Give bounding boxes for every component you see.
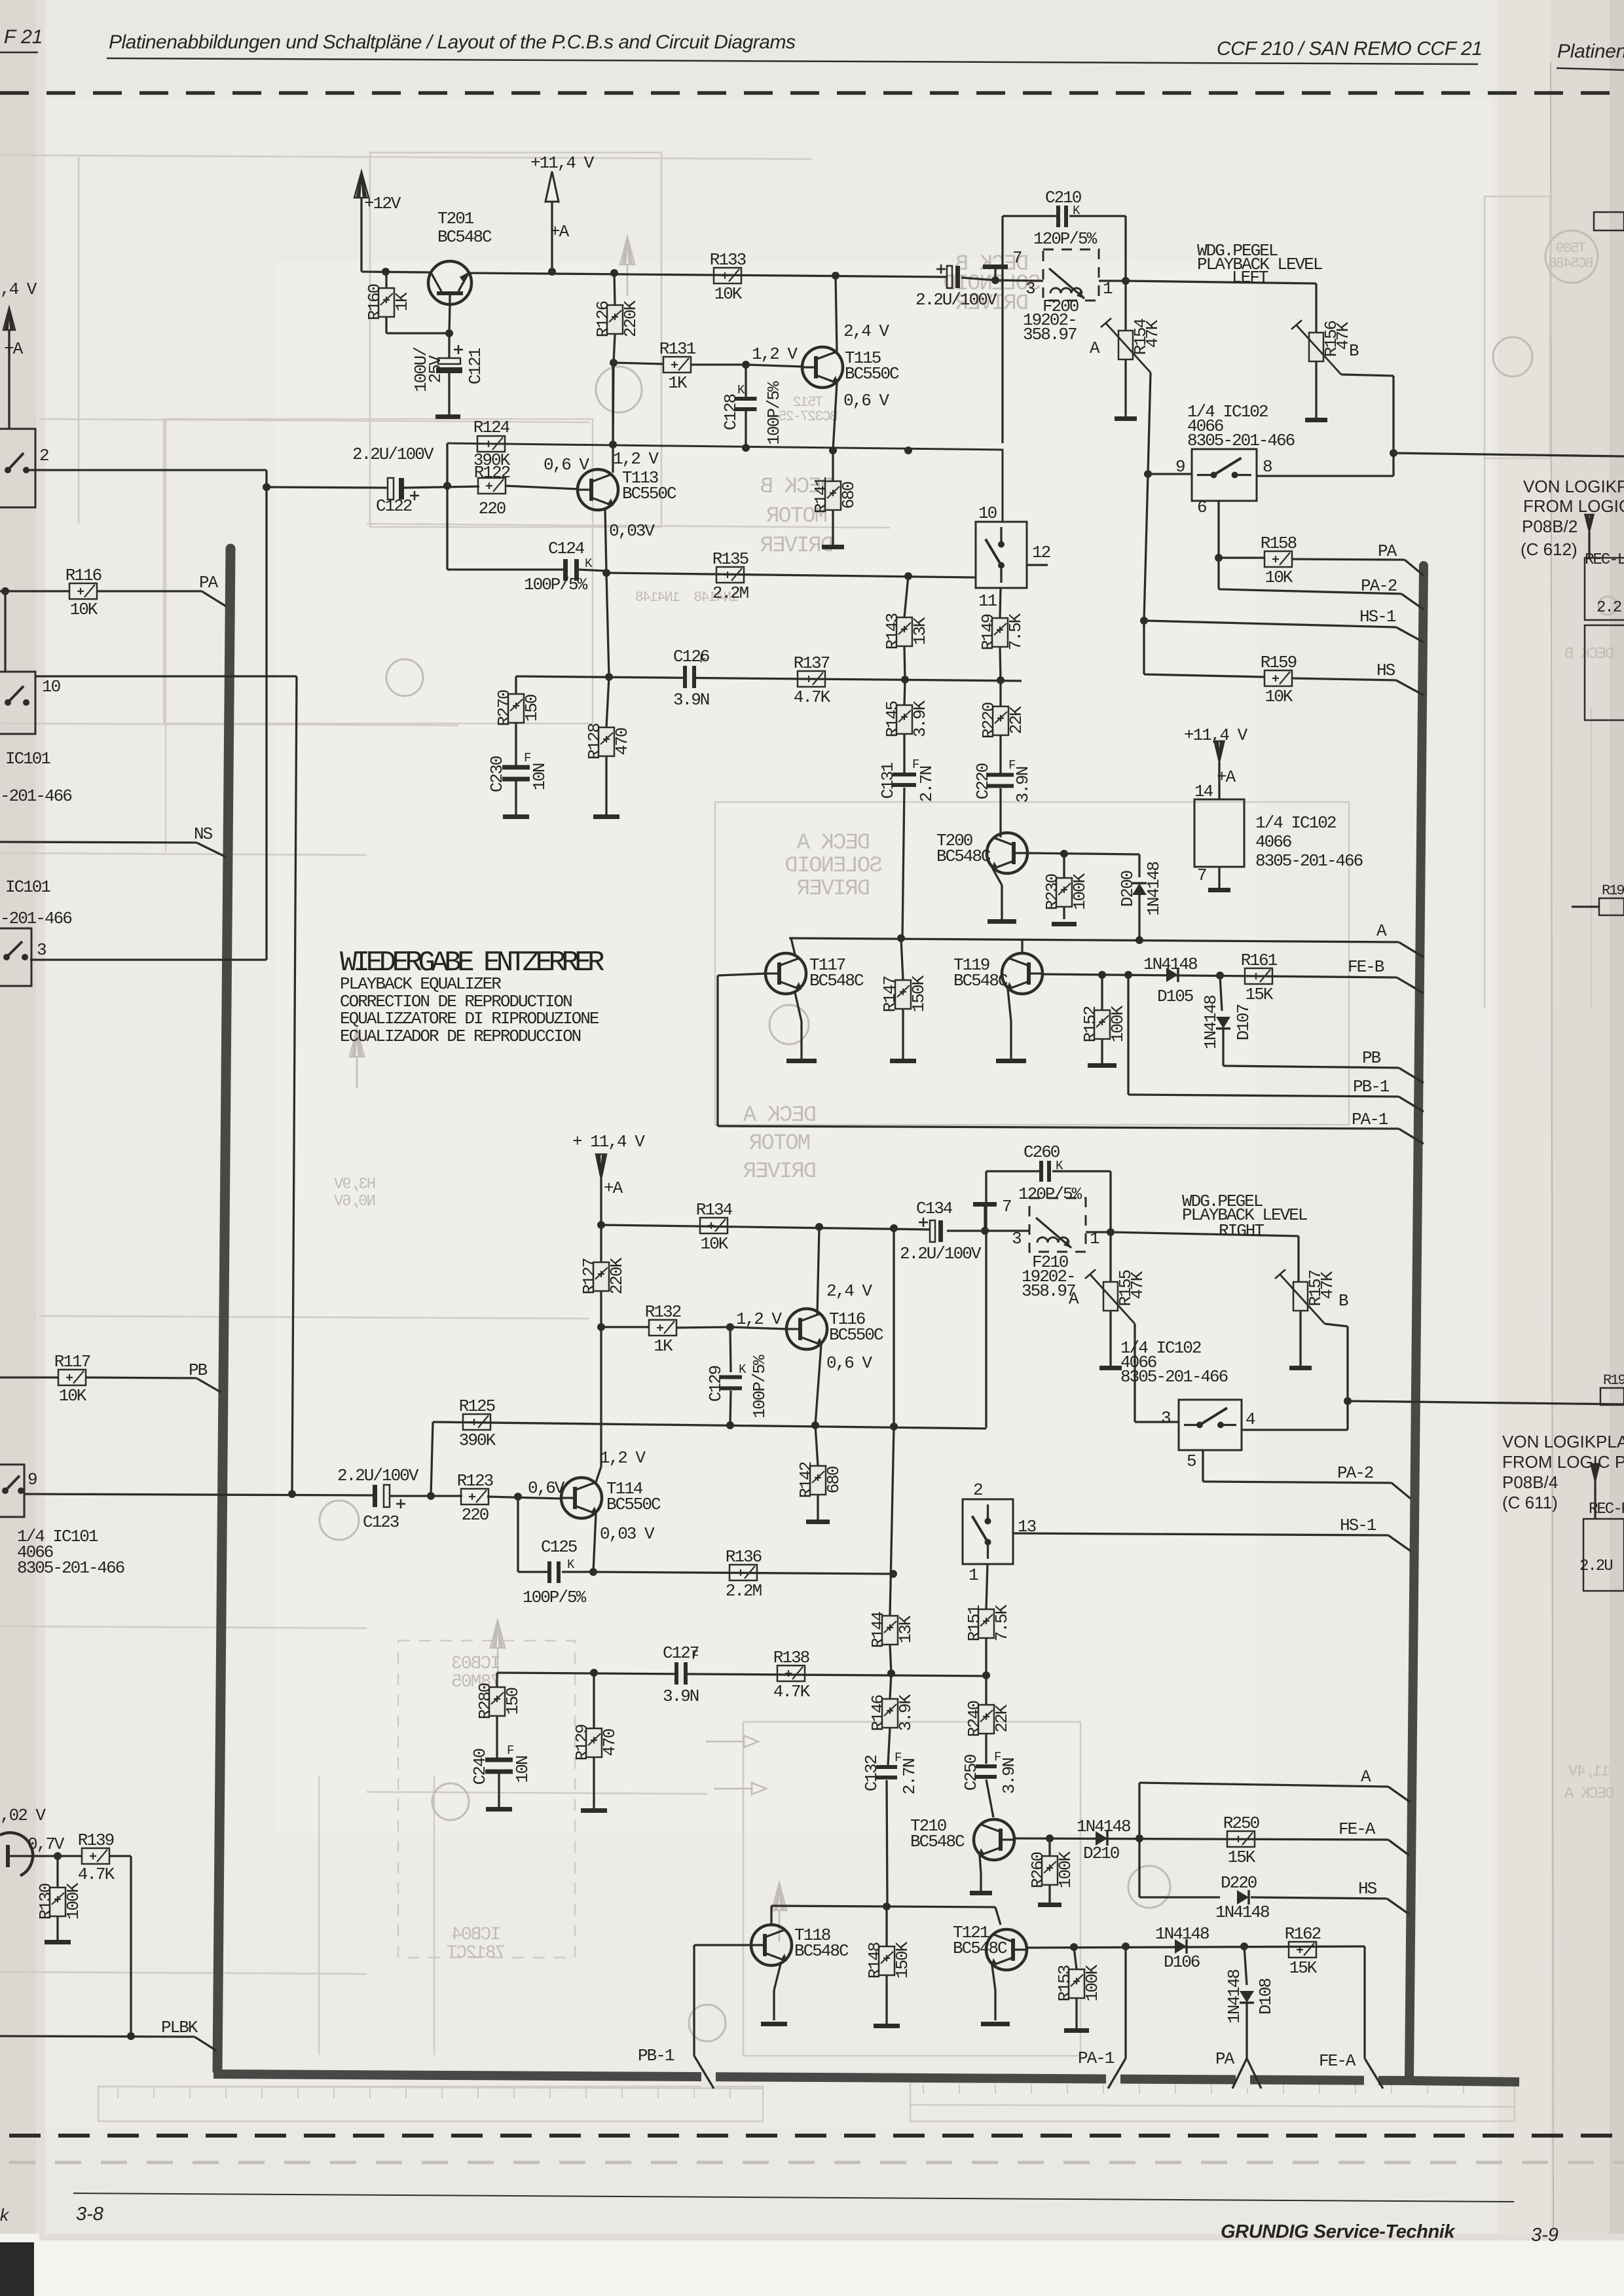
svg-text:10K: 10K: [714, 284, 743, 304]
svg-text:A: A: [1090, 338, 1100, 358]
svg-text:1N4148: 1N4148: [1155, 1924, 1209, 1944]
diode D105: [1166, 968, 1178, 982]
svg-text:R137: R137: [794, 653, 830, 673]
shield pin 7 of F200: [994, 269, 996, 280]
svg-text:ICB04: ICB04: [452, 1925, 501, 1945]
svg-text:3-9: 3-9: [1531, 2225, 1559, 2246]
ground: [822, 545, 844, 549]
resistor R141: [832, 450, 834, 481]
bottom scanner strip: [0, 2234, 1624, 2296]
bus line right vertical: [1409, 566, 1424, 2077]
svg-text:D105: D105: [1157, 987, 1193, 1006]
svg-text:C127: C127: [663, 1643, 699, 1663]
svg-text:R139: R139: [78, 1831, 114, 1850]
resistor R131: [663, 357, 691, 373]
svg-text:100P/5%: 100P/5%: [764, 381, 784, 445]
wire R157 wiper to node B lower: [1325, 1324, 1348, 1326]
svg-text:7.5K: 7.5K: [992, 1604, 1012, 1641]
svg-text:0,6 V: 0,6 V: [826, 1353, 872, 1373]
ground: [1064, 2028, 1089, 2033]
bus line bottom right extension: [1409, 2081, 1519, 2082]
svg-text:ICB03: ICB03: [452, 1654, 501, 1674]
diode D210: [1096, 1831, 1107, 1846]
capacitor C126: [683, 666, 687, 688]
wire to R157: [1111, 1232, 1299, 1236]
svg-text:47K: 47K: [1143, 319, 1162, 348]
svg-text:PLAYBACK EQUALIZER: PLAYBACK EQUALIZER: [340, 974, 501, 994]
svg-text:,02 V: ,02 V: [0, 1806, 46, 1825]
ground: [761, 2022, 787, 2026]
svg-text:R162: R162: [1285, 1924, 1321, 1944]
resistor R220: [999, 680, 1001, 706]
svg-text:4.7K: 4.7K: [794, 687, 831, 707]
ground: [1052, 922, 1077, 926]
node PA lower: [1232, 2058, 1247, 2088]
svg-text:C124: C124: [548, 539, 585, 558]
svg-text:DECK A: DECK A: [1564, 1785, 1614, 1803]
wire wiper node to HS nets: [1144, 474, 1148, 621]
svg-text:358.97: 358.97: [1023, 325, 1077, 344]
svg-text:47K: 47K: [1128, 1271, 1147, 1299]
ghost reverse-side wiring: [0, 155, 812, 159]
ground: [1038, 1903, 1061, 1907]
svg-text:1K: 1K: [654, 1336, 673, 1356]
wire T119 collector: [1021, 940, 1023, 953]
capacitor C124: [446, 486, 448, 570]
svg-text:R135: R135: [712, 549, 748, 569]
svg-text:+A: +A: [550, 222, 570, 242]
svg-text:150K: 150K: [909, 975, 929, 1012]
wire T117 emitter: [795, 993, 802, 1021]
svg-text:680: 680: [839, 482, 858, 509]
svg-text:9: 9: [28, 1470, 37, 1489]
svg-text:12: 12: [1032, 543, 1050, 562]
resistor R116: [69, 583, 97, 599]
svg-text:C260: C260: [1024, 1142, 1060, 1162]
svg-text:R158: R158: [1261, 534, 1297, 553]
svg-text:120P/5%: 120P/5%: [1033, 229, 1098, 249]
left edge switch IC101 pin 9: [0, 1465, 24, 1517]
svg-text:PB: PB: [189, 1360, 208, 1380]
wire emitter node to R128: [606, 574, 609, 677]
svg-text:VON LOGIKPL: VON LOGIKPL: [1523, 477, 1624, 496]
svg-text:R260: R260: [1028, 1852, 1048, 1888]
left edge power arrow: [3, 308, 15, 330]
node PB-1: [1127, 975, 1129, 1095]
resistor R117: [58, 1370, 86, 1385]
svg-text:R144: R144: [868, 1611, 888, 1648]
svg-text:REC-R: REC-R: [1589, 1501, 1624, 1518]
svg-text:3: 3: [37, 940, 46, 960]
svg-text:220: 220: [479, 499, 506, 519]
left edge switch IC101 pin 10: [0, 672, 35, 734]
svg-text:C126: C126: [673, 647, 709, 666]
ground: [486, 1807, 512, 1812]
svg-text:NS: NS: [194, 824, 213, 844]
transistor T117: [766, 953, 806, 994]
wire T116 collector: [817, 1228, 819, 1315]
svg-text:10: 10: [42, 677, 60, 697]
svg-text:7: 7: [1002, 1197, 1011, 1216]
svg-text:ECUALIZADOR DE REPRODUCCION: ECUALIZADOR DE REPRODUCCION: [340, 1027, 581, 1046]
wire T117 collector: [791, 938, 795, 955]
svg-text:1N4148: 1N4148: [1143, 955, 1197, 974]
resistor R129: [593, 1673, 595, 1728]
resistor R145: [904, 680, 905, 705]
svg-text:K: K: [585, 556, 593, 571]
REC-R block outline: [1583, 1519, 1624, 1591]
wire T118 collector line: [770, 1906, 772, 1923]
svg-text:680: 680: [824, 1467, 843, 1493]
transistor T210: [974, 1819, 1014, 1860]
svg-text:358.97: 358.97: [1022, 1281, 1075, 1301]
svg-text:R151: R151: [965, 1605, 984, 1641]
svg-text:470: 470: [600, 1729, 619, 1756]
svg-text:Platinena: Platinena: [1557, 41, 1624, 62]
svg-text:DRIVER: DRIVER: [797, 877, 870, 902]
capacitor C240: [485, 1758, 513, 1762]
wire R135 line: [606, 573, 976, 577]
svg-text:PA-1: PA-1: [1078, 2049, 1115, 2068]
svg-text:HS: HS: [1376, 661, 1395, 680]
svg-text:R133: R133: [710, 250, 746, 270]
svg-text:R145: R145: [883, 701, 902, 737]
svg-text:1N4148: 1N4148: [1144, 862, 1164, 916]
IC102 switch block pin 14-7: [1194, 799, 1244, 867]
svg-text:C123: C123: [363, 1512, 399, 1532]
wire R136 line: [593, 1572, 893, 1574]
node PA-1 line: [718, 1126, 1399, 1129]
svg-text:7.5K: 7.5K: [1006, 613, 1025, 650]
wire T210 base line: [1014, 1838, 1388, 1840]
svg-text:(C 612): (C 612): [1521, 539, 1578, 559]
svg-text:C250: C250: [961, 1755, 981, 1791]
svg-text:R230: R230: [1043, 874, 1062, 910]
svg-text:1,2 V: 1,2 V: [613, 449, 659, 469]
ground: [996, 1059, 1026, 1063]
ground: [1305, 418, 1327, 422]
svg-text:R125: R125: [459, 1396, 495, 1416]
svg-text:100K: 100K: [1082, 1964, 1102, 2001]
svg-text:BC548C: BC548C: [437, 227, 492, 247]
left edge wire: [8, 367, 10, 429]
node PA left: [0, 590, 69, 592]
left edge transistor: [0, 1832, 33, 1876]
resistor R142: [815, 1425, 818, 1466]
svg-text:2.2U/100V: 2.2U/100V: [900, 1244, 982, 1264]
wire R144 chain vertical: [893, 1228, 895, 1427]
svg-text:FROM LOGIC: FROM LOGIC: [1523, 496, 1624, 516]
svg-text:R128: R128: [585, 723, 604, 759]
transistor T118: [751, 1925, 792, 1965]
node A lower: [1139, 1783, 1388, 1787]
svg-text:C210: C210: [1045, 188, 1081, 208]
svg-text:390K: 390K: [459, 1430, 496, 1450]
resistor R125: [463, 1414, 490, 1430]
wire T114 emitter: [593, 1514, 596, 1572]
svg-text:220K: 220K: [607, 1257, 627, 1294]
resistor R160: [385, 272, 387, 288]
svg-text:PA: PA: [1378, 541, 1397, 561]
wire T210 emitter: [980, 1855, 981, 1874]
svg-text:P08B/2: P08B/2: [1522, 517, 1578, 536]
svg-text:2,4 V: 2,4 V: [843, 321, 889, 341]
svg-text:4.7K: 4.7K: [773, 1682, 811, 1702]
svg-text:C131: C131: [878, 762, 898, 799]
svg-text:FE-B: FE-B: [1348, 957, 1384, 977]
bus line left vertical: [217, 549, 231, 2070]
svg-text:D220: D220: [1221, 1873, 1257, 1893]
svg-text:BC548C: BC548C: [809, 971, 864, 991]
svg-text:R159: R159: [1261, 653, 1297, 672]
ground: [786, 1059, 817, 1063]
resistor R139: [82, 1848, 109, 1864]
diode D200: [1132, 883, 1147, 895]
svg-text:F: F: [524, 751, 531, 765]
svg-text:N0,6V: N0,6V: [333, 1193, 376, 1211]
svg-text:13K: 13K: [896, 1615, 915, 1643]
svg-text:220: 220: [462, 1505, 489, 1525]
resistor R126: [614, 273, 615, 305]
svg-text:T509: T509: [1557, 240, 1587, 257]
svg-text:R116: R116: [65, 566, 101, 585]
capacitor C129: [730, 1327, 731, 1372]
ground: [503, 814, 529, 819]
svg-text:3: 3: [1161, 1408, 1170, 1428]
wire top supply rail: [361, 272, 430, 272]
right edge resistor fragment upper: [1594, 212, 1624, 230]
REC-L block outline: [1585, 558, 1624, 620]
svg-text:R117: R117: [54, 1352, 90, 1372]
svg-text:100K: 100K: [1070, 873, 1090, 910]
ground: [1208, 888, 1230, 892]
node A line: [789, 938, 1399, 942]
resistor R240: [985, 1675, 987, 1705]
resistor R139: [58, 1855, 82, 1857]
resistor R159: [1144, 674, 1264, 677]
tape head F200: [1043, 249, 1099, 301]
resistor R136: [729, 1565, 757, 1580]
svg-text:0,6 V: 0,6 V: [544, 455, 589, 475]
diode D106: [1175, 1939, 1187, 1954]
svg-text:(C 611): (C 611): [1502, 1493, 1558, 1512]
resistor R280: [496, 1673, 498, 1687]
svg-text:10N: 10N: [530, 763, 549, 790]
wire switch pin 8: [1257, 475, 1393, 477]
wire pin 10 route: [35, 675, 297, 677]
ground: [970, 1891, 992, 1895]
svg-text:4: 4: [1246, 1410, 1255, 1429]
right edge resistor fragment mid: [1599, 898, 1624, 915]
node FE-A lower: [1363, 1946, 1365, 2058]
ground: [987, 919, 1016, 924]
ground: [874, 2024, 900, 2028]
resistor R138: [777, 1666, 805, 1681]
svg-text:2: 2: [39, 446, 48, 465]
svg-text:BC548C: BC548C: [953, 971, 1008, 991]
node PB left: [0, 1376, 58, 1378]
svg-text:22K: 22K: [1006, 706, 1026, 734]
svg-text:R19: R19: [1603, 1372, 1624, 1389]
svg-text:15K: 15K: [1228, 1848, 1256, 1867]
svg-text:3.9N: 3.9N: [999, 1758, 1019, 1794]
svg-text:1N4148: 1N4148: [1201, 996, 1221, 1049]
resistor R230: [1063, 854, 1065, 878]
svg-text:8305-201-466: 8305-201-466: [1255, 851, 1363, 871]
wire C126 line: [516, 676, 1022, 681]
capacitor C121: [448, 333, 450, 358]
capacitor C131: [893, 773, 916, 776]
wire R154 wiper to switch: [1148, 373, 1151, 474]
svg-text:150K: 150K: [893, 1941, 912, 1978]
ground: [1099, 1366, 1122, 1370]
ground: [45, 1940, 71, 1944]
resistor R148: [885, 1906, 887, 1946]
wire T201 base: [449, 304, 450, 333]
svg-text:3.9N: 3.9N: [663, 1686, 699, 1706]
svg-text:7: 7: [1012, 248, 1022, 268]
svg-text:R141: R141: [811, 477, 831, 513]
svg-text:BC550C: BC550C: [622, 484, 676, 503]
bottom dashed border: [9, 2134, 1624, 2138]
svg-text:R123: R123: [457, 1471, 493, 1491]
svg-text:8305-201-466: 8305-201-466: [1120, 1367, 1228, 1387]
svg-text:1,2 V: 1,2 V: [736, 1309, 782, 1329]
wire switch pin 6 / PA net: [1217, 501, 1219, 589]
svg-text:D108: D108: [1256, 1978, 1276, 2014]
left edge switch IC101 pin 3: [0, 928, 31, 986]
resistor R159: [1264, 670, 1292, 686]
svg-text:k: k: [0, 2205, 10, 2225]
wire to switch pin 4: [1346, 1401, 1348, 1430]
wire playback input: [267, 487, 388, 488]
svg-text:R124: R124: [473, 418, 510, 437]
node PA-2 lower: [1202, 1450, 1204, 1482]
capacitor C127: [674, 1662, 678, 1685]
transistor T113: [578, 469, 618, 510]
page tone band: [1498, 0, 1551, 2296]
svg-text:15K: 15K: [1289, 1958, 1318, 1978]
svg-text:C122: C122: [376, 496, 412, 516]
svg-text:BC327-25: BC327-25: [779, 409, 838, 425]
paper fold line: [1551, 62, 1553, 2232]
resistor R149: [1000, 588, 1001, 618]
REC-R arrow: [1591, 1464, 1600, 1481]
svg-text:BC548C: BC548C: [953, 1939, 1007, 1958]
wire T116 emitter: [815, 1345, 821, 1425]
ghost second dashed line: [9, 2161, 1624, 2164]
wire node B to REC-R: [1348, 1401, 1624, 1404]
svg-text:100P/5%: 100P/5%: [750, 1355, 769, 1419]
svg-text:D200: D200: [1118, 871, 1137, 907]
transistor T114: [561, 1478, 602, 1518]
svg-text:100K: 100K: [1108, 1005, 1128, 1042]
svg-text:R143: R143: [883, 613, 902, 649]
node PA-1 lower: [1124, 1946, 1126, 2058]
svg-text:T201: T201: [437, 209, 474, 228]
svg-text:DRIVER: DRIVER: [743, 1159, 817, 1184]
svg-text:BC550C: BC550C: [829, 1325, 883, 1345]
resistor R146: [890, 1673, 891, 1699]
wire T121 base line: [1027, 1946, 1365, 1948]
svg-text:GRUNDIG Service-Technik: GRUNDIG Service-Technik: [1221, 2221, 1456, 2242]
REC-L arrow: [1585, 515, 1594, 532]
svg-text:9: 9: [1175, 457, 1185, 477]
wire T114 collector: [596, 1467, 601, 1482]
svg-text:FROM LOGIC PC: FROM LOGIC PC: [1502, 1452, 1624, 1472]
svg-text:R280: R280: [475, 1683, 495, 1719]
resistor R147: [901, 938, 903, 980]
power +12V: [354, 172, 369, 198]
ground: [890, 1059, 916, 1063]
svg-text:8: 8: [1263, 457, 1272, 477]
svg-text:CCF 210 / SAN REMO CCF 21: CCF 210 / SAN REMO CCF 21: [1217, 38, 1483, 60]
bus line bottom horizontal: [213, 2074, 1409, 2081]
svg-text:+12V: +12V: [364, 194, 401, 213]
wire T115 emitter: [833, 383, 837, 450]
svg-text:3-8: 3-8: [76, 2204, 103, 2225]
svg-text:R220: R220: [979, 702, 999, 738]
svg-text:13: 13: [1018, 1517, 1036, 1537]
ghost right-pointing arrows +5V: [744, 1736, 758, 1747]
svg-text:2: 2: [973, 1480, 982, 1500]
svg-text:22K: 22K: [992, 1704, 1012, 1732]
svg-text:C230: C230: [487, 756, 507, 792]
wire T118 base to PB-1: [694, 1944, 751, 1946]
wire to switch 10: [4, 591, 6, 672]
svg-text:0,03V: 0,03V: [609, 521, 655, 541]
svg-text:F: F: [507, 1743, 514, 1758]
svg-text:3.9K: 3.9K: [896, 1694, 915, 1731]
svg-text:6: 6: [1197, 498, 1206, 517]
resistor R158: [1264, 551, 1292, 567]
svg-text:BC550C: BC550C: [606, 1495, 661, 1514]
svg-text:MOTOR: MOTOR: [749, 1131, 811, 1156]
svg-text:REC-L: REC-L: [1585, 551, 1624, 569]
svg-text:C129: C129: [706, 1366, 726, 1402]
capacitor C250: [976, 1764, 997, 1768]
wire R156 wiper to node B: [1341, 374, 1393, 376]
svg-text:P08B/4: P08B/4: [1502, 1472, 1558, 1492]
svg-text:2.2U/100V: 2.2U/100V: [337, 1466, 419, 1485]
svg-text:PA-2: PA-2: [1337, 1463, 1373, 1483]
potentiometer R156: [1309, 333, 1323, 361]
svg-text:100K: 100K: [1056, 1851, 1075, 1888]
svg-text:2.2U: 2.2U: [1579, 1558, 1612, 1575]
svg-text:R149: R149: [978, 614, 998, 650]
wire T113 emitter: [605, 509, 606, 572]
svg-text:10N: 10N: [513, 1756, 532, 1783]
svg-text:+ 11,4 V: + 11,4 V: [572, 1132, 645, 1152]
svg-text:C132: C132: [862, 1755, 881, 1791]
resistor R137: [798, 671, 825, 687]
svg-text:1K: 1K: [668, 373, 688, 393]
capacitor C220: [987, 773, 1014, 777]
svg-text:A: A: [1376, 921, 1387, 941]
ground: [1289, 1366, 1312, 1370]
wire T200 emitter: [993, 869, 1002, 885]
svg-text:R130: R130: [36, 1884, 56, 1920]
svg-text:R270: R270: [494, 690, 514, 726]
svg-text:BC550C: BC550C: [845, 364, 899, 384]
svg-text:R161: R161: [1241, 951, 1278, 970]
wire R155 wiper to switch pin 3: [1134, 1324, 1135, 1422]
svg-text:10K: 10K: [1265, 568, 1293, 587]
svg-text:10K: 10K: [1265, 687, 1293, 706]
wire T119 base / FE-B line: [1043, 974, 1397, 977]
capacitor C210: [1124, 216, 1126, 281]
svg-text:3: 3: [1025, 279, 1035, 299]
